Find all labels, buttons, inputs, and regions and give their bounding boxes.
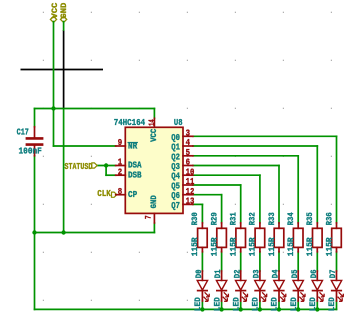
svg-text:8: 8 [118, 186, 123, 197]
svg-text:LED: LED [309, 297, 318, 311]
wire STATUSD to DSA [97, 165, 116, 167]
supply symbol VCC [50, 3, 59, 23]
svg-text:R36: R36 [325, 212, 334, 225]
svg-text:7: 7 [145, 215, 154, 219]
svg-text:R30: R30 [191, 212, 200, 225]
svg-text:13: 13 [186, 196, 195, 207]
resistor R32 115R [249, 212, 265, 256]
svg-text:LED: LED [232, 297, 241, 311]
pin 8 CP [116, 186, 126, 197]
svg-text:GND: GND [60, 3, 69, 19]
wire VCC rail to capacitor [34, 109, 36, 127]
pin 7 GND [145, 213, 155, 223]
svg-text:CP: CP [128, 189, 138, 200]
junction GND rail / supply wire [61, 230, 65, 234]
IC pin name NR with overline [128, 141, 138, 152]
junction VCC [51, 106, 55, 110]
wire capacitor to GND rail [34, 156, 36, 233]
resistor R33 115R [268, 212, 284, 256]
svg-text:Q7: Q7 [171, 200, 180, 211]
svg-text:14: 14 [148, 119, 157, 126]
wire resistor R30 to LED D0 [201, 252, 203, 271]
svg-text:GND: GND [150, 195, 159, 208]
svg-text:C17: C17 [17, 127, 29, 138]
wire branch to DSB [106, 166, 116, 176]
svg-text:U8: U8 [174, 117, 183, 128]
wire left vertical to bottom rail [34, 233, 36, 310]
sheet origin cross [21, 30, 104, 109]
junction GND rail / capacitor [32, 230, 36, 234]
svg-text:115R: 115R [230, 237, 239, 256]
pin 2 DSB [116, 166, 126, 177]
svg-text:D6: D6 [310, 269, 319, 278]
svg-text:115R: 115R [287, 237, 296, 256]
op IC U8 74HC164 body [125, 127, 183, 213]
svg-text:VCC: VCC [150, 129, 159, 142]
svg-text:115R: 115R [306, 237, 315, 256]
wire bottom LED rail [35, 308, 337, 310]
svg-text:115R: 115R [210, 237, 219, 256]
svg-text:D3: D3 [253, 269, 262, 278]
junction bottom rail at D6 [315, 307, 319, 311]
wire resistor R34 to LED D5 [297, 252, 299, 271]
svg-text:115R: 115R [325, 237, 334, 256]
svg-text:100nF: 100nF [19, 146, 42, 157]
capacitor C17 100nF [17, 127, 44, 157]
svg-text:VCC: VCC [51, 3, 60, 19]
wire LED D6 to bottom rail [316, 301, 318, 309]
wire LED D5 to bottom rail [297, 301, 299, 309]
wire resistor R35 to LED D6 [316, 252, 318, 271]
wire Q3 (pin 6) to resistor column [193, 166, 279, 223]
wire resistor R31 to LED D2 [240, 252, 242, 271]
svg-text:LED: LED [328, 297, 337, 311]
pin 5 Q2 [183, 147, 193, 158]
svg-text:D1: D1 [214, 269, 223, 278]
wire GND rail horizontal [35, 232, 155, 234]
wire LED D3 to bottom rail [259, 301, 261, 309]
pin 3 Q0 [183, 128, 193, 139]
svg-text:DSB: DSB [128, 169, 142, 180]
pin 9 NR [116, 137, 126, 148]
wire resistor R29 to LED D1 [221, 252, 223, 271]
wire resistor R32 to LED D3 [259, 252, 261, 271]
pin 14 VCC [148, 118, 157, 127]
resistor R36 115R [325, 212, 341, 256]
wire Q6 (pin 12) to resistor column [193, 195, 222, 223]
svg-text:115R: 115R [249, 237, 258, 256]
wire resistor R33 to LED D4 [278, 252, 280, 271]
wire VCC to pin14 [153, 109, 155, 119]
wire LED D1 to bottom rail [221, 301, 223, 309]
wire Q4 (pin 10) to resistor column [193, 175, 260, 223]
svg-text:D4: D4 [272, 269, 281, 278]
wire LED D2 to bottom rail [240, 301, 242, 309]
svg-text:R31: R31 [230, 212, 239, 225]
svg-text:74HC164: 74HC164 [114, 117, 146, 128]
wire Q1 (pin 4) to resistor column [193, 146, 317, 223]
junction bottom rail at D0 [200, 307, 204, 311]
resistor R31 115R [230, 212, 246, 256]
wire VCC down to NR pin [54, 109, 116, 147]
svg-text:LED: LED [271, 297, 280, 311]
net label CLK [97, 188, 117, 199]
junction bottom rail at D5 [296, 307, 300, 311]
svg-text:R29: R29 [210, 212, 219, 225]
wire Q2 (pin 5) to resistor column [193, 156, 298, 223]
pin 4 Q1 [183, 137, 193, 148]
wire LED D0 to bottom rail [201, 301, 203, 309]
svg-text:R34: R34 [287, 212, 296, 225]
supply symbol GND [60, 3, 69, 23]
resistor R35 115R [306, 212, 322, 256]
wire Q0 (pin 3) to resistor column [193, 136, 337, 223]
pin 13 Q7 [183, 196, 195, 207]
svg-text:R33: R33 [268, 212, 277, 225]
svg-text:LED: LED [213, 297, 222, 311]
LED D7 [328, 269, 343, 311]
junction bottom rail at D4 [277, 307, 281, 311]
junction bottom rail at D3 [258, 307, 262, 311]
wire LED D4 to bottom rail [278, 301, 280, 309]
wire VCC rail horizontal [35, 108, 155, 110]
resistor R29 115R [210, 212, 226, 256]
svg-text:D7: D7 [329, 269, 338, 278]
svg-text:LED: LED [290, 297, 299, 311]
resistor R34 115R [287, 212, 303, 256]
svg-text:LED: LED [252, 297, 261, 311]
svg-text:2: 2 [118, 166, 122, 177]
resistor R30 115R [191, 212, 207, 256]
pin 10 Q4 [183, 166, 194, 177]
svg-text:R32: R32 [249, 212, 258, 225]
junction bottom rail at D2 [239, 307, 243, 311]
svg-text:LED: LED [194, 297, 203, 311]
svg-text:D2: D2 [233, 269, 242, 278]
svg-text:STATUSD: STATUSD [65, 161, 93, 172]
LED D6 [309, 269, 324, 311]
svg-text:115R: 115R [268, 237, 277, 256]
wire pin7 to GND rail [153, 223, 155, 233]
pin 11 Q5 [183, 176, 195, 187]
pin 1 DSA [116, 157, 126, 168]
junction bottom rail at D1 [219, 307, 223, 311]
wire LED D7 to bottom rail [336, 301, 338, 309]
wire VCC vertical from supply [53, 22, 55, 109]
pin 12 Q6 [183, 186, 194, 197]
net label STATUSD [65, 161, 98, 172]
junction STATUSD [104, 163, 108, 167]
svg-text:CLK: CLK [97, 188, 111, 199]
pin 6 Q3 [183, 157, 193, 168]
svg-text:D5: D5 [291, 269, 300, 278]
svg-text:R35: R35 [306, 212, 315, 225]
wire GND vertical from supply to GND rail [63, 22, 65, 233]
LED D1 [213, 269, 228, 311]
wire resistor R36 to LED D7 [336, 252, 338, 271]
LED D2 [232, 269, 247, 311]
wire Q5 (pin 11) to resistor column [193, 185, 241, 223]
LED D5 [290, 269, 305, 311]
svg-text:D0: D0 [195, 269, 204, 278]
LED D3 [252, 269, 267, 311]
wire Q7 (pin 13) to resistor column [193, 204, 203, 223]
LED D4 [271, 269, 286, 311]
svg-text:9: 9 [118, 137, 122, 148]
LED D0 [194, 269, 209, 311]
svg-text:115R: 115R [191, 237, 200, 256]
